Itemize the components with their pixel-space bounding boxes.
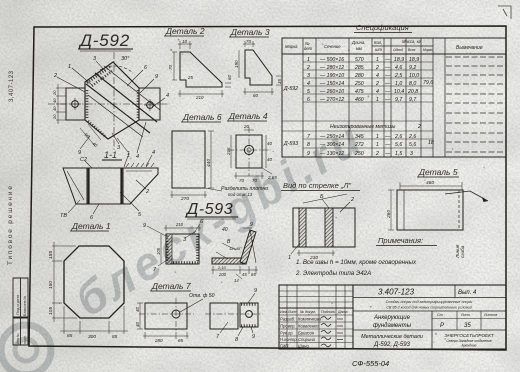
svg-text:—: — bbox=[384, 81, 391, 87]
svg-text:1: 1 bbox=[376, 134, 379, 140]
corner mark top-right bbox=[498, 6, 511, 19]
table data rows bbox=[283, 57, 434, 157]
svg-text:25: 25 bbox=[187, 75, 194, 80]
left dim ticks of plan bbox=[56, 84, 66, 124]
svg-text:— 150×14: — 150×14 bbox=[319, 81, 344, 87]
svg-text:65: 65 bbox=[178, 338, 184, 343]
svg-text:3,407-123: 3,407-123 bbox=[9, 70, 15, 102]
svg-text:Изм: Изм bbox=[280, 310, 287, 314]
detail 1 octagon bbox=[64, 246, 124, 318]
svg-text:Одной: Одной bbox=[393, 48, 403, 52]
svg-text:40: 40 bbox=[135, 306, 140, 312]
svg-text:5,6: 5,6 bbox=[409, 142, 416, 148]
svg-text:285: 285 bbox=[354, 65, 364, 71]
D-593 bent plate side view bbox=[212, 230, 256, 264]
detail 4 body bbox=[236, 135, 262, 168]
svg-text:14: 14 bbox=[234, 278, 239, 283]
svg-text:2: 2 bbox=[375, 81, 379, 87]
svg-text:СФ-555-04: СФ-555-04 bbox=[352, 359, 389, 368]
detail 1 label bbox=[71, 221, 111, 231]
notes bbox=[378, 236, 423, 245]
svg-text:4: 4 bbox=[307, 81, 310, 87]
svg-text:— 280×12: — 280×12 bbox=[319, 65, 344, 71]
svg-text:10: 10 bbox=[182, 39, 188, 44]
view L hatched posts bbox=[299, 208, 333, 247]
svg-text:9: 9 bbox=[143, 223, 146, 229]
svg-text:Бригсон: Бригсон bbox=[298, 331, 315, 336]
svg-text:1-1: 1-1 bbox=[104, 150, 117, 160]
svg-text:Ст.: Ст. bbox=[437, 313, 444, 317]
specification table grid bbox=[282, 38, 506, 157]
svg-text:Разраб.: Разраб. bbox=[280, 317, 295, 322]
svg-text:фундаменты: фундаменты bbox=[373, 323, 412, 329]
svg-text:1: 1 bbox=[376, 97, 379, 103]
view arrow L label bbox=[283, 181, 351, 190]
svg-text:79,6: 79,6 bbox=[423, 80, 433, 86]
svg-text:—: — bbox=[384, 97, 391, 103]
detail 2 body bbox=[180, 52, 222, 87]
svg-text:Взам.инв.№: Взам.инв.№ bbox=[23, 296, 27, 316]
svg-text:Н.контр.: Н.контр. bbox=[280, 337, 298, 342]
fold line label bbox=[455, 244, 465, 259]
svg-text:Кол,: Кол, bbox=[374, 40, 382, 45]
svg-text:Лист: Лист bbox=[460, 313, 470, 317]
svg-text:мм: мм bbox=[356, 46, 362, 51]
detail 7 label bbox=[151, 281, 191, 291]
small assembly detail 8-9 bbox=[210, 303, 258, 329]
row lines left part bbox=[282, 62, 433, 148]
title Д-592 bbox=[78, 31, 130, 50]
svg-text:1. Все швы h = 10мм, кроме ого: 1. Все швы h = 10мм, кроме оговоренных bbox=[296, 259, 417, 266]
svg-text:4: 4 bbox=[136, 154, 139, 160]
small slanted dims bottom-left of plan bbox=[83, 132, 98, 148]
svg-text:280: 280 bbox=[354, 73, 364, 79]
svg-text:2: 2 bbox=[375, 151, 379, 157]
svg-text:9,2: 9,2 bbox=[409, 65, 416, 71]
svg-text:40: 40 bbox=[52, 98, 57, 103]
svg-text:35: 35 bbox=[464, 323, 471, 329]
dirt specks bbox=[59, 39, 485, 343]
watermark bbox=[1, 111, 373, 372]
svg-text:—: — bbox=[384, 134, 391, 140]
svg-text:Анкерующие: Анкерующие bbox=[373, 315, 411, 321]
section 1-1 leaders bbox=[68, 155, 152, 214]
svg-text:4,6: 4,6 bbox=[395, 65, 402, 71]
leader lines with part numbers bbox=[57, 61, 165, 153]
weld dotted bands bbox=[87, 66, 138, 137]
svg-text:9: 9 bbox=[252, 334, 255, 340]
svg-text:Стойки-опоры под электрифициро: Стойки-опоры под электрифицированные опо… bbox=[386, 300, 473, 304]
svg-text:Деталь 2: Деталь 2 bbox=[165, 26, 205, 36]
svg-text:— 500×16: — 500×16 bbox=[319, 57, 344, 63]
detail 5 dim 460 bbox=[400, 182, 462, 190]
svg-text:20: 20 bbox=[243, 124, 250, 129]
svg-text:35: 35 bbox=[277, 78, 282, 84]
title block right part bbox=[353, 285, 506, 349]
detail 5 bend arrow bbox=[445, 191, 488, 201]
svg-text:18,9: 18,9 bbox=[394, 57, 404, 63]
svg-text:Спирина: Спирина bbox=[298, 337, 316, 342]
svg-text:250: 250 bbox=[354, 81, 364, 87]
svg-text:70: 70 bbox=[246, 39, 252, 44]
svg-text:Комлячкова: Комлячкова bbox=[298, 317, 322, 322]
svg-text:1: 1 bbox=[376, 142, 379, 148]
svg-text:2. Электроды типа Э42А: 2. Электроды типа Э42А bbox=[295, 270, 371, 277]
svg-text:№ докум.: № докум. bbox=[300, 310, 316, 314]
svg-text:— 190×10: — 190×10 bbox=[319, 73, 344, 79]
title D-593 bbox=[185, 201, 233, 218]
svg-text:Деталь 6: Деталь 6 bbox=[182, 112, 222, 122]
sheet frame bbox=[29, 26, 506, 350]
svg-text:570: 570 bbox=[355, 57, 364, 63]
svg-text:2: 2 bbox=[145, 189, 149, 195]
main plan view: right flange plate bbox=[139, 88, 160, 120]
svg-text:9: 9 bbox=[78, 150, 81, 156]
svg-text:Длина,: Длина, bbox=[351, 40, 365, 45]
svg-text:60: 60 bbox=[253, 93, 259, 98]
svg-text:Арендное: Арендное bbox=[461, 344, 477, 348]
svg-text:ГИП: ГИП bbox=[280, 344, 289, 349]
note text under detail 4 bbox=[221, 186, 268, 197]
svg-text:ТВ: ТВ bbox=[60, 213, 67, 219]
svg-text:190: 190 bbox=[234, 60, 239, 68]
svg-text:1: 1 bbox=[307, 57, 310, 63]
row lines remark column bbox=[444, 38, 446, 157]
detail 5 label bbox=[418, 167, 458, 177]
svg-text:1,5: 1,5 bbox=[395, 151, 402, 157]
svg-text:150: 150 bbox=[48, 281, 54, 289]
detail 3 label bbox=[230, 27, 270, 37]
svg-text:4: 4 bbox=[166, 93, 169, 99]
svg-text:300: 300 bbox=[88, 334, 96, 340]
svg-text:155: 155 bbox=[48, 251, 54, 259]
svg-text:9: 9 bbox=[155, 74, 158, 80]
section 1-1 label bbox=[104, 150, 117, 160]
svg-text:9,7: 9,7 bbox=[395, 97, 403, 103]
detail 6 label bbox=[182, 112, 222, 122]
main plan view: left flange plate bbox=[66, 88, 85, 120]
main plan view: central plate bbox=[85, 62, 160, 139]
svg-text:10,0: 10,0 bbox=[409, 73, 419, 79]
svg-text:Марки: Марки bbox=[423, 48, 433, 52]
svg-text:Рук.гр.: Рук.гр. bbox=[280, 331, 294, 336]
svg-text:460: 460 bbox=[426, 180, 434, 186]
svg-text:5: 5 bbox=[307, 89, 310, 95]
svg-text:5,6: 5,6 bbox=[395, 142, 402, 148]
table headers bbox=[285, 39, 483, 52]
svg-text:Д-592: Д-592 bbox=[78, 31, 130, 50]
svg-text:Марка: Марка bbox=[285, 44, 298, 49]
svg-text:3.407-123: 3.407-123 bbox=[378, 288, 415, 297]
svg-text:40: 40 bbox=[267, 141, 273, 146]
LEFT MARGIN bbox=[7, 70, 15, 265]
svg-text:2: 2 bbox=[306, 65, 310, 71]
detail 2 label bbox=[165, 26, 205, 36]
svg-text:Д-592, Д-593: Д-592, Д-593 bbox=[373, 342, 410, 348]
svg-text:Под.и дата: Под.и дата bbox=[15, 294, 20, 315]
svg-text:Подпись: Подпись bbox=[321, 310, 335, 314]
svg-text:1: 1 bbox=[68, 64, 71, 70]
centerlines bbox=[48, 52, 170, 152]
svg-text:60: 60 bbox=[227, 74, 232, 80]
svg-text:2,6: 2,6 bbox=[408, 134, 416, 140]
svg-text:1: 1 bbox=[127, 151, 130, 157]
svg-text:8,0: 8,0 bbox=[409, 81, 416, 87]
svg-text:шт: шт bbox=[375, 47, 382, 52]
svg-text:280: 280 bbox=[154, 338, 163, 343]
svg-text:3: 3 bbox=[307, 73, 310, 79]
detail 5 left dim bbox=[388, 190, 394, 230]
svg-text:—: — bbox=[384, 151, 391, 157]
svg-text:Листов: Листов bbox=[483, 313, 497, 317]
svg-text:Вымечание: Вымечание bbox=[456, 45, 483, 51]
view L body bbox=[293, 208, 355, 247]
svg-text:дет: дет bbox=[304, 46, 313, 51]
detail 4 label bbox=[228, 111, 268, 121]
detail 5 body bbox=[397, 190, 463, 230]
svg-text:210: 210 bbox=[195, 95, 204, 100]
svg-text:СВ 95-2 косой для новых строит: СВ 95-2 косой для новых строительных усл… bbox=[386, 306, 472, 310]
svg-text:1,0: 1,0 bbox=[395, 81, 402, 87]
svg-text:Спецификация: Спецификация bbox=[356, 23, 409, 32]
title block left grid bbox=[279, 285, 353, 349]
svg-text:200: 200 bbox=[218, 272, 227, 277]
svg-text:Лист: Лист bbox=[287, 310, 297, 314]
svg-text:Д-592: Д-592 bbox=[283, 86, 298, 92]
svg-text:сгиба: сгиба bbox=[460, 245, 465, 258]
svg-text:—: — bbox=[384, 57, 391, 63]
svg-text:Отв. ф 50: Отв. ф 50 bbox=[189, 293, 215, 299]
section 1-1 body bbox=[63, 168, 158, 204]
svg-text:Сечение: Сечение bbox=[324, 44, 341, 49]
svg-text:Б: Б bbox=[320, 194, 324, 200]
svg-text:Деталь 3: Деталь 3 bbox=[230, 27, 270, 37]
svg-text:Шани: Шани bbox=[298, 344, 309, 349]
svg-text:2: 2 bbox=[375, 65, 379, 71]
svg-text:1: 1 bbox=[288, 255, 291, 261]
svg-text:— 260×10: — 260×10 bbox=[319, 89, 344, 95]
svg-text:9,7: 9,7 bbox=[409, 97, 417, 103]
svg-text:18,9: 18,9 bbox=[409, 57, 419, 63]
svg-text:85: 85 bbox=[67, 333, 73, 339]
svg-text:40: 40 bbox=[52, 106, 57, 111]
svg-text:105: 105 bbox=[48, 307, 54, 315]
svg-text:30°: 30° bbox=[121, 56, 130, 62]
svg-text:4: 4 bbox=[376, 89, 379, 95]
svg-text:85: 85 bbox=[112, 334, 118, 340]
svg-text:—: — bbox=[384, 65, 391, 71]
svg-text:440: 440 bbox=[206, 159, 212, 167]
D-593 channel detail (plan) bbox=[166, 234, 199, 264]
detail 7 body bbox=[145, 303, 187, 329]
svg-text:2: 2 bbox=[417, 124, 421, 130]
30 deg arc bbox=[100, 66, 133, 73]
title block left texts bbox=[280, 310, 347, 314]
detail 3 body bbox=[245, 50, 272, 85]
svg-text:Провер.: Провер. bbox=[280, 324, 296, 329]
svg-text:2: 2 bbox=[53, 73, 57, 79]
svg-text:4: 4 bbox=[152, 150, 155, 156]
svg-text:215: 215 bbox=[226, 147, 231, 156]
svg-text:Коваленко: Коваленко bbox=[298, 324, 319, 329]
svg-text:65: 65 bbox=[251, 272, 256, 277]
svg-text:Вып. 4: Вып. 4 bbox=[458, 290, 477, 296]
svg-text:—: — bbox=[384, 73, 391, 79]
svg-text:70: 70 bbox=[168, 64, 173, 70]
svg-text:Всех: Всех bbox=[408, 48, 416, 52]
svg-text:2,5: 2,5 bbox=[394, 73, 402, 79]
svg-text:18: 18 bbox=[428, 140, 434, 146]
svg-text:10,4: 10,4 bbox=[394, 89, 404, 95]
svg-text:Северо-Западное отделение: Северо-Западное отделение bbox=[446, 339, 492, 343]
svg-text:Типовое решение: Типовое решение bbox=[7, 184, 14, 265]
specification table title bbox=[356, 23, 409, 32]
svg-text:260: 260 bbox=[386, 210, 392, 219]
svg-text:Р: Р bbox=[440, 323, 444, 329]
svg-text:Примечания:: Примечания: bbox=[378, 236, 423, 245]
hatch ticks on top of right block bbox=[126, 163, 154, 167]
svg-text:2,10: 2,10 bbox=[217, 265, 227, 270]
svg-text:Металлические детали: Металлические детали bbox=[361, 334, 423, 340]
svg-text:С2: С2 bbox=[80, 157, 87, 163]
svg-text:475: 475 bbox=[355, 89, 364, 95]
detail 6 body bbox=[172, 131, 205, 188]
svg-text:20: 20 bbox=[52, 90, 57, 96]
svg-text:20,8: 20,8 bbox=[407, 89, 418, 95]
svg-text:9: 9 bbox=[254, 288, 257, 294]
svg-text:— 270×12: — 270×12 bbox=[319, 97, 344, 103]
svg-text:2,6: 2,6 bbox=[394, 134, 402, 140]
svg-text:Деталь 4: Деталь 4 bbox=[228, 111, 268, 121]
svg-text:Масса, кг: Масса, кг bbox=[402, 39, 421, 44]
svg-text:Деталь 1: Деталь 1 bbox=[71, 221, 111, 231]
svg-text:Дата: Дата bbox=[337, 310, 347, 314]
svg-text:—: — bbox=[384, 142, 391, 148]
signatures squiggles bbox=[321, 317, 343, 347]
svg-text:4: 4 bbox=[376, 73, 379, 79]
svg-text:460: 460 bbox=[355, 97, 364, 103]
svg-text:20: 20 bbox=[52, 114, 57, 120]
svg-text:6: 6 bbox=[307, 97, 310, 103]
svg-text:Деталь 5: Деталь 5 bbox=[418, 167, 458, 177]
detail 1 dimensions bbox=[52, 242, 128, 334]
svg-text:1: 1 bbox=[376, 57, 379, 63]
title block frame bbox=[279, 285, 506, 349]
svg-text:ЭНЕРГОСЕТЬПРОЕКТ: ЭНЕРГОСЕТЬПРОЕКТ bbox=[444, 333, 494, 338]
svg-text:12×45°: 12×45° bbox=[229, 246, 242, 251]
svg-text:3: 3 bbox=[410, 151, 413, 157]
svg-text:—: — bbox=[384, 89, 391, 95]
left vertical stamp boxes bbox=[13, 278, 28, 345]
svg-text:45: 45 bbox=[242, 272, 247, 277]
svg-text:2: 2 bbox=[350, 197, 354, 203]
svg-text:40: 40 bbox=[135, 321, 140, 327]
